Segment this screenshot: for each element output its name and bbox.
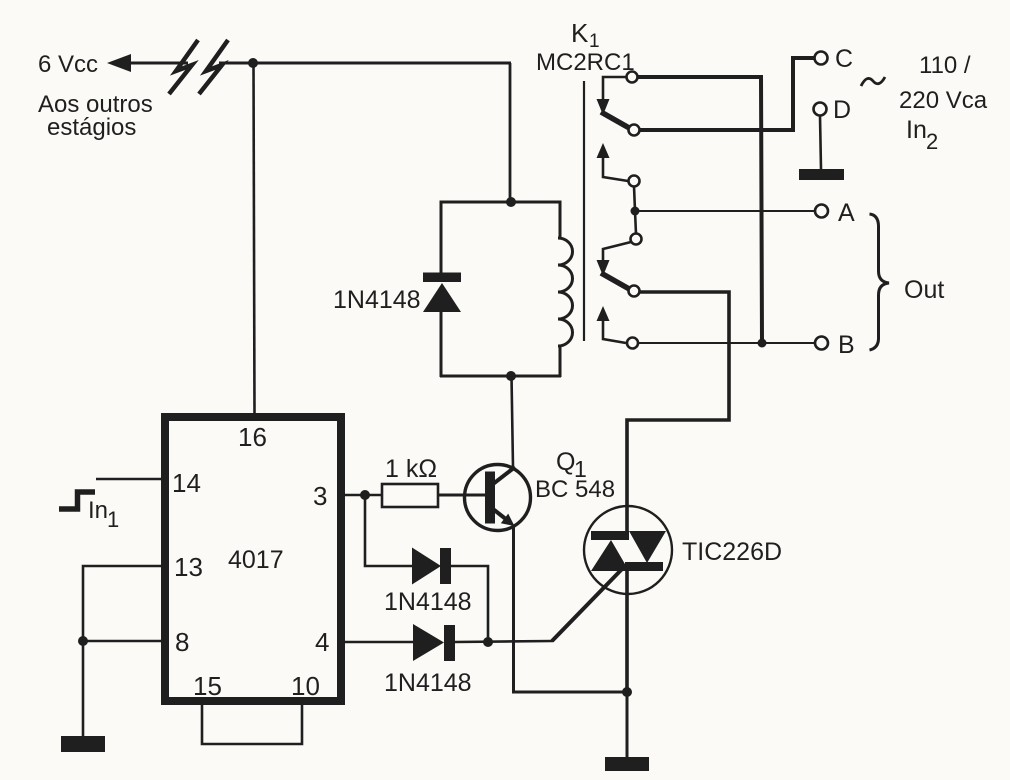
contact 1 blade [601,112,631,129]
svg-text:1N4148: 1N4148 [384,588,472,616]
wire triac to ground [626,692,629,758]
svg-text:In: In [906,116,927,144]
contact 3 circle top [631,234,642,245]
wire coil bottom to collector [512,376,514,467]
svg-text:C: C [835,45,853,73]
tilde AC symbol [861,77,885,86]
svg-text:1N4148: 1N4148 [333,286,421,314]
wire node A down [635,211,636,234]
relay coil right edge top [559,201,562,240]
contact 4 arrow up [597,306,610,321]
svg-text:220 Vca: 220 Vca [899,87,988,114]
svg-text:16: 16 [238,422,267,452]
terminal D circle [814,103,827,116]
svg-text:13: 13 [174,552,203,582]
break symbol slash 1 [169,40,198,94]
wire contact1 NO to C [640,58,814,130]
svg-text:1 kΩ: 1 kΩ [385,455,437,483]
svg-text:Q: Q [556,448,575,476]
node B junction [758,339,767,348]
wire triac MT1 down [625,571,629,692]
svg-text:14: 14 [172,468,201,498]
break symbol slash 2 [199,40,228,94]
svg-text:8: 8 [175,627,189,657]
terminal B circle [815,337,828,350]
wire contact3 to triac MT2 [627,292,729,532]
triac down triangle [629,531,666,563]
diode D2 1N4148 anode triangle [413,624,444,661]
node triac cathode junction [622,687,632,697]
wire resistor to base [438,494,486,497]
svg-text:110 /: 110 / [919,52,971,79]
contact 4 wire [603,319,626,343]
contact 1 terminal circle NO [629,125,640,136]
contact 1 terminal circle top [627,72,638,83]
wire pin 3 [341,494,382,497]
triac U2 circle [584,506,672,594]
svg-text:10: 10 [291,671,320,701]
In1 step symbol [59,492,95,509]
wire to ground left [82,641,85,737]
contact 2 arrow up [597,143,610,158]
wire top rail right [219,62,511,65]
transistor Q1 emitter stroke [493,509,507,520]
relay coil box bottom edge [440,375,561,378]
diode D flyback 1N4148 cathode bar [423,273,461,283]
diode D1 cathode bar [440,548,451,584]
svg-text:estágios: estágios [47,114,136,141]
wire contact2 to node A [634,186,635,211]
contact 4 circle [627,338,638,349]
terminal C circle [815,52,828,65]
triac MT1 bar [625,562,663,571]
node A junction [631,207,640,216]
contact 1 pole wire thick to right rail [637,77,762,343]
wire top rail left [128,62,188,65]
svg-text:6 Vcc: 6 Vcc [38,51,98,78]
transistor Q1 collector stroke [493,467,515,484]
coil L1 humps [558,238,573,346]
transistor Q1 base bar [485,472,495,524]
svg-text:3: 3 [313,481,327,511]
wire pin 8 [83,640,165,643]
svg-text:TIC226D: TIC226D [682,538,782,566]
node junction top rail [248,58,258,68]
svg-text:B: B [838,331,855,359]
wire pin 14 [96,478,165,481]
contact 3 wire to arrow [603,242,631,261]
transistor Q1 circle [465,465,531,531]
svg-text:4017: 4017 [228,546,284,574]
brace Out [870,214,890,350]
resistor R1 1k body [382,484,438,507]
svg-text:4: 4 [315,627,329,657]
node coil bottom [506,371,516,381]
wire gate diagonal [552,567,624,641]
transistor Q1 emitter arrowhead [501,514,515,526]
svg-text:15: 15 [193,671,222,701]
contact 3 circle NO [629,286,640,297]
relay coil box left edge [440,201,443,378]
wire pin 4 [341,641,413,644]
ground triac [605,757,649,771]
svg-text:1N4148: 1N4148 [384,669,472,697]
wire pin3 branch down [365,495,412,566]
triac up triangle [591,540,629,571]
svg-text:In: In [88,497,108,524]
wire pin 15 to pin 10 [202,705,302,744]
svg-text:2: 2 [926,129,938,154]
wire vertical to relay coil [509,63,512,202]
svg-text:A: A [838,199,855,227]
diode D2 cathode bar [444,625,455,661]
terminal A circle [815,205,828,218]
svg-text:1: 1 [107,507,119,532]
svg-text:D: D [833,96,851,124]
wire to terminal B [638,342,815,344]
contact 1 wire to arrow [603,77,627,100]
wire to terminal A [635,210,815,212]
node pin8/13 junction [78,636,88,646]
wire D2 to gate node [455,641,553,642]
triac MT2 bar [591,531,629,540]
svg-text:BC 548: BC 548 [535,476,615,503]
ground left [61,736,105,752]
ground D [799,169,844,180]
Vcc arrow [107,54,131,72]
relay coil box top edge [440,201,561,204]
svg-text:Out: Out [904,276,944,304]
relay separator line [583,81,585,341]
contact 3 arrowhead [597,260,610,276]
node gate junction [483,637,493,647]
IC U1 4017 box [165,417,341,701]
diode D flyback 1N4148 anode triangle [423,283,461,312]
relay coil right edge bottom [559,345,562,377]
contact 2 wire [603,156,628,181]
wire emitter down [514,527,628,692]
wire D1 to node [451,566,488,642]
svg-text:K: K [571,18,589,48]
node coil top [506,197,516,207]
node pin 3 junction [360,490,370,500]
diode D1 1N4148 anode triangle [412,548,441,585]
contact 1 arrowhead [597,99,610,115]
wire vertical to pin 16 [254,63,255,414]
contact 3 blade [601,273,631,290]
wire D to ground [820,116,821,169]
contact 2 circle top [629,176,640,187]
svg-text:MC2RC1: MC2RC1 [536,49,635,76]
wire pin 13 [83,566,165,641]
